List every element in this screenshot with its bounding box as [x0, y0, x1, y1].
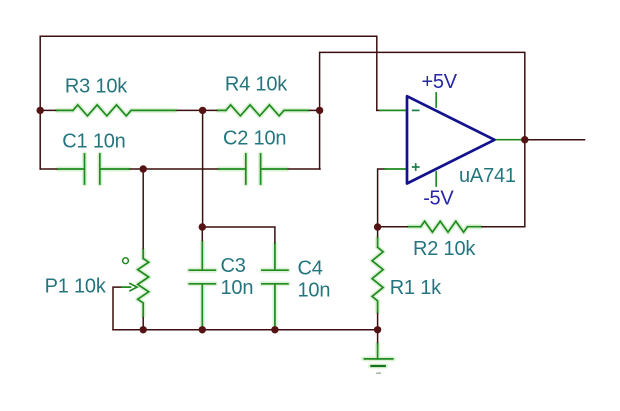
wire R4 right stub	[308, 109, 320, 111]
op-amp U1 plus sign	[412, 163, 420, 171]
wire C3 link to C4	[202, 227, 275, 244]
wire plus input to R1 node	[378, 169, 386, 227]
wire R1 bottom stub	[377, 312, 379, 330]
op-amp U1 input pin stubs	[380, 110, 407, 169]
wire R2 right stub	[480, 226, 524, 228]
wire C1 row left stub	[40, 168, 58, 170]
ground	[364, 359, 394, 373]
wire R1 top stub	[377, 227, 379, 238]
svg-text:R3 10k: R3 10k	[65, 76, 128, 98]
potentiometer P1 body	[138, 250, 149, 316]
op-amp U1 output pin stub	[495, 139, 525, 141]
green halo underlay	[57, 105, 480, 366]
wire output feedback loop	[320, 52, 525, 226]
wire C1 node segment	[129, 168, 219, 170]
resistor R2	[409, 221, 480, 232]
svg-text:C4: C4	[298, 257, 323, 279]
node ground	[374, 326, 381, 333]
svg-text:uA741: uA741	[459, 165, 516, 187]
node C3 bottom	[199, 326, 206, 333]
wire C3 top stub	[201, 227, 203, 242]
wire mid rail (R3R4 node down to C3)	[202, 110, 204, 227]
potentiometer P1 terminal circle	[123, 258, 129, 264]
wire output	[525, 139, 585, 141]
svg-text:C3: C3	[221, 255, 246, 277]
wire C2 right corner	[287, 168, 320, 170]
wire left rail	[39, 36, 41, 169]
wire P1 top	[142, 169, 144, 250]
svg-text:+5V: +5V	[422, 71, 458, 93]
dark wires	[40, 36, 584, 344]
node R4 right (output rail)	[316, 107, 323, 114]
svg-text:R1 1k: R1 1k	[390, 277, 442, 299]
wire P1 bottom	[142, 316, 144, 330]
svg-text:10n: 10n	[298, 279, 331, 301]
svg-text:-5V: -5V	[423, 188, 454, 210]
node P1 bottom	[140, 326, 147, 333]
wire R2 left stub	[378, 226, 409, 228]
op-amp U1 minus sign	[412, 109, 420, 111]
node output	[521, 136, 528, 143]
node R3-R4 junction	[199, 107, 206, 114]
wire bottom rail	[113, 329, 378, 331]
svg-text:R2 10k: R2 10k	[413, 238, 476, 260]
op-amp U1 power pin stubs	[435, 93, 437, 186]
resistor R4	[218, 105, 308, 116]
wire R4 left stub	[203, 109, 218, 111]
resistor R1	[372, 238, 383, 312]
capacitor C4	[262, 244, 288, 326]
node R3 left	[37, 107, 44, 114]
svg-text:R4 10k: R4 10k	[225, 73, 288, 95]
wire top feedback (left rail to - input)	[40, 36, 377, 110]
node R1 top	[374, 223, 381, 230]
node C4 bottom	[271, 326, 278, 333]
wire wiper to corner	[113, 287, 122, 330]
ground lead	[377, 344, 379, 359]
wire ground stub	[377, 330, 379, 344]
potentiometer P1 wiper arrow	[122, 284, 137, 291]
node C1-C2 junction	[140, 165, 147, 172]
wire minus input corner stub	[377, 109, 381, 111]
capacitor C3	[189, 242, 215, 326]
wire R3 right to node	[176, 109, 203, 111]
wire R3 left stub	[40, 109, 57, 111]
op-amp U1 triangle	[407, 96, 495, 183]
svg-text:C2 10n: C2 10n	[223, 128, 286, 150]
capacitor C1	[58, 154, 129, 184]
svg-text:P1 10k: P1 10k	[45, 276, 107, 298]
capacitor C2	[219, 154, 287, 184]
svg-text:C1 10n: C1 10n	[62, 130, 125, 152]
svg-text:10n: 10n	[221, 277, 254, 299]
green component strokes	[57, 93, 525, 359]
node C3 top	[199, 223, 206, 230]
resistor R3	[57, 105, 176, 116]
